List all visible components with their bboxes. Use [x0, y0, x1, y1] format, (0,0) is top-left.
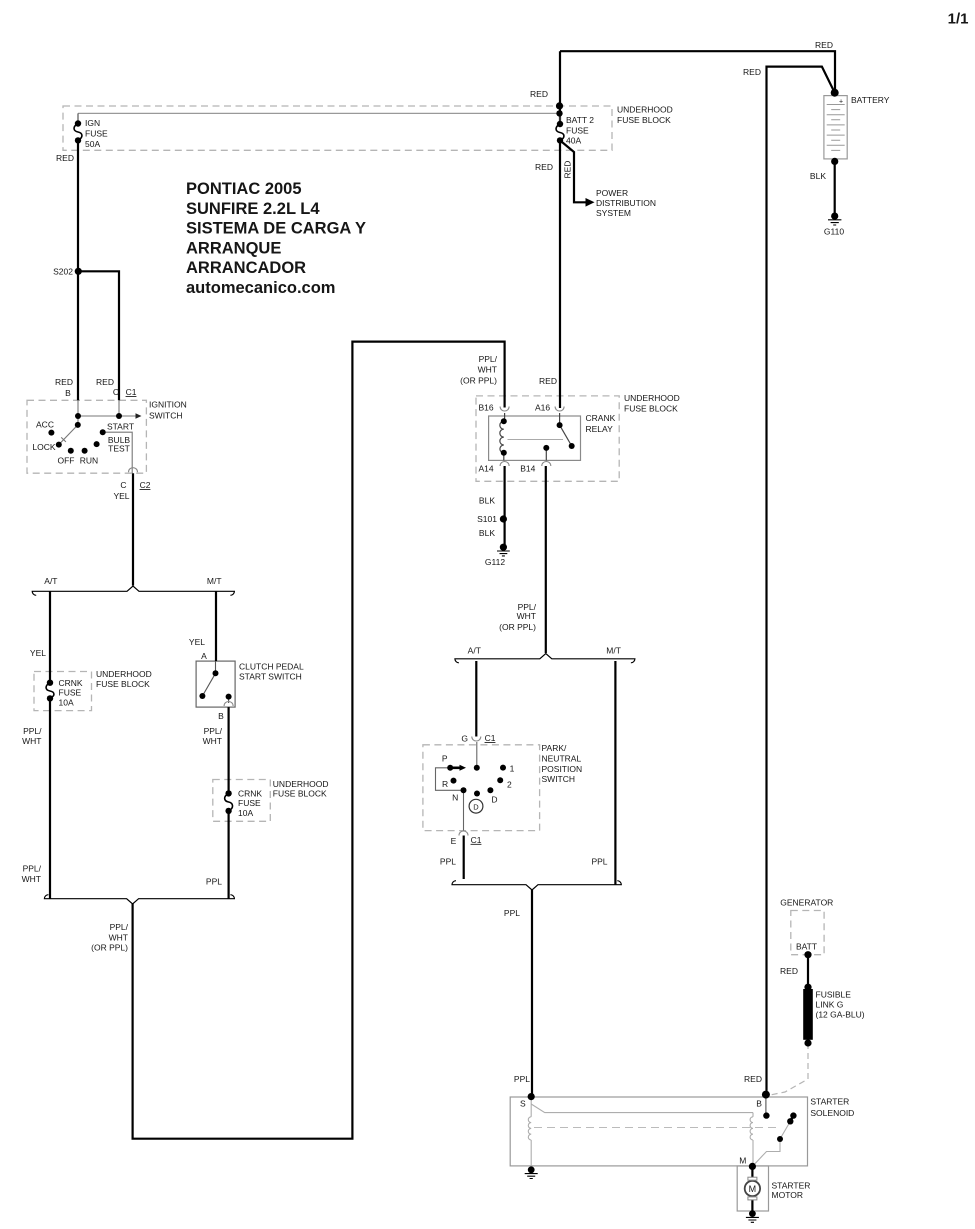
svg-text:POSITION: POSITION — [542, 764, 583, 774]
svg-text:OFF: OFF — [58, 456, 75, 466]
svg-text:MOTOR: MOTOR — [772, 1190, 803, 1200]
svg-text:A16: A16 — [535, 403, 550, 413]
svg-text:RED: RED — [96, 377, 114, 387]
svg-text:STARTER: STARTER — [810, 1097, 849, 1107]
svg-text:M: M — [739, 1156, 746, 1166]
svg-text:G112: G112 — [485, 557, 505, 567]
svg-text:40A: 40A — [566, 136, 581, 146]
svg-text:WHT: WHT — [109, 933, 128, 943]
svg-text:A14: A14 — [478, 464, 493, 474]
svg-text:WHT: WHT — [22, 874, 41, 884]
svg-text:PPL/: PPL/ — [479, 354, 498, 364]
svg-text:WHT: WHT — [22, 736, 41, 746]
svg-text:1/1: 1/1 — [948, 11, 969, 28]
svg-text:FUSE: FUSE — [566, 126, 589, 136]
svg-text:S: S — [520, 1099, 526, 1109]
svg-text:RED: RED — [55, 377, 73, 387]
svg-text:PPL/: PPL/ — [204, 726, 223, 736]
svg-text:C1: C1 — [485, 733, 496, 743]
svg-text:ACC: ACC — [36, 420, 54, 430]
svg-text:M/T: M/T — [606, 646, 621, 656]
svg-text:2: 2 — [507, 780, 512, 790]
svg-text:BATT: BATT — [796, 942, 817, 952]
svg-text:YEL: YEL — [189, 637, 205, 647]
svg-text:E: E — [451, 836, 457, 846]
svg-text:B: B — [218, 711, 224, 721]
svg-text:D: D — [491, 794, 497, 804]
svg-text:FUSE: FUSE — [238, 798, 261, 808]
svg-text:S202: S202 — [53, 267, 73, 277]
svg-text:IGNITION: IGNITION — [149, 400, 187, 410]
svg-text:RED: RED — [563, 161, 573, 179]
svg-text:POWER: POWER — [596, 188, 628, 198]
svg-text:C1: C1 — [126, 387, 137, 397]
svg-text:RED: RED — [744, 1074, 762, 1084]
svg-text:BATTERY: BATTERY — [851, 95, 890, 105]
svg-text:R: R — [442, 779, 448, 789]
svg-text:FUSE BLOCK: FUSE BLOCK — [624, 404, 678, 414]
svg-text:WHT: WHT — [478, 365, 497, 375]
svg-text:PPL: PPL — [514, 1074, 530, 1084]
svg-text:FUSE: FUSE — [85, 129, 108, 139]
svg-text:RED: RED — [815, 40, 833, 50]
svg-text:RED: RED — [743, 67, 761, 77]
svg-text:BLK: BLK — [810, 171, 826, 181]
svg-text:B: B — [65, 388, 71, 398]
svg-text:GENERATOR: GENERATOR — [780, 898, 833, 908]
svg-text:SISTEMA DE CARGA Y: SISTEMA DE CARGA Y — [186, 220, 366, 238]
svg-text:CLUTCH PEDAL: CLUTCH PEDAL — [239, 662, 304, 672]
svg-text:SYSTEM: SYSTEM — [596, 208, 631, 218]
svg-text:IGN: IGN — [85, 118, 100, 128]
svg-text:B16: B16 — [478, 403, 493, 413]
svg-text:P: P — [442, 754, 448, 764]
svg-text:ARRANQUE: ARRANQUE — [186, 239, 281, 257]
svg-text:SUNFIRE 2.2L L4: SUNFIRE 2.2L L4 — [186, 200, 320, 218]
svg-text:PPL: PPL — [504, 908, 520, 918]
svg-text:YEL: YEL — [30, 648, 46, 658]
svg-text:C: C — [120, 480, 126, 490]
svg-text:(OR PPL): (OR PPL) — [91, 943, 128, 953]
svg-text:PPL: PPL — [440, 857, 456, 867]
svg-text:FUSIBLE: FUSIBLE — [816, 990, 852, 1000]
svg-text:UNDERHOOD: UNDERHOOD — [96, 669, 152, 679]
svg-text:CRNK: CRNK — [59, 678, 83, 688]
svg-text:N: N — [452, 793, 458, 803]
svg-text:SWITCH: SWITCH — [149, 411, 183, 421]
svg-text:PPL/: PPL/ — [23, 864, 42, 874]
svg-text:C: C — [113, 387, 119, 397]
svg-text:M: M — [749, 1184, 757, 1194]
svg-text:FUSE BLOCK: FUSE BLOCK — [96, 679, 150, 689]
svg-text:WHT: WHT — [203, 736, 222, 746]
svg-text:START: START — [107, 422, 134, 432]
svg-text:G: G — [461, 734, 468, 744]
svg-text:LINK G: LINK G — [816, 1000, 844, 1010]
svg-text:SWITCH: SWITCH — [542, 774, 576, 784]
svg-text:PPL/: PPL/ — [23, 726, 42, 736]
svg-text:+: + — [839, 99, 843, 106]
svg-text:RUN: RUN — [80, 456, 98, 466]
svg-text:RED: RED — [56, 153, 74, 163]
svg-text:PPL: PPL — [206, 877, 222, 887]
svg-text:NEUTRAL: NEUTRAL — [542, 754, 582, 764]
svg-text:RED: RED — [780, 966, 798, 976]
svg-text:10A: 10A — [238, 808, 253, 818]
svg-text:1: 1 — [510, 763, 515, 773]
svg-text:G110: G110 — [824, 227, 844, 237]
svg-text:BLK: BLK — [479, 496, 495, 506]
svg-text:SOLENOID: SOLENOID — [810, 1108, 854, 1118]
svg-text:RED: RED — [530, 89, 548, 99]
svg-text:STARTER: STARTER — [772, 1181, 811, 1191]
svg-text:UNDERHOOD: UNDERHOOD — [624, 393, 680, 403]
svg-text:RED: RED — [539, 376, 557, 386]
svg-text:UNDERHOOD: UNDERHOOD — [273, 779, 329, 789]
svg-text:PPL: PPL — [591, 857, 607, 867]
svg-text:D: D — [473, 802, 479, 811]
svg-text:automecanico.com: automecanico.com — [186, 279, 335, 297]
svg-text:FUSE BLOCK: FUSE BLOCK — [273, 789, 327, 799]
svg-text:ARRANCADOR: ARRANCADOR — [186, 259, 306, 277]
svg-text:BLK: BLK — [479, 528, 495, 538]
svg-text:PARK/: PARK/ — [542, 743, 568, 753]
svg-text:CRNK: CRNK — [238, 789, 262, 799]
svg-text:FUSE: FUSE — [59, 688, 82, 698]
svg-text:LOCK: LOCK — [32, 442, 55, 452]
svg-text:B: B — [756, 1099, 762, 1109]
svg-text:PPL/: PPL/ — [110, 922, 129, 932]
svg-text:C2: C2 — [140, 480, 151, 490]
svg-text:PONTIAC 2005: PONTIAC 2005 — [186, 180, 302, 198]
svg-text:RED: RED — [535, 162, 553, 172]
svg-text:(OR PPL): (OR PPL) — [460, 376, 497, 386]
svg-text:(OR PPL): (OR PPL) — [499, 622, 536, 632]
svg-text:UNDERHOOD: UNDERHOOD — [617, 105, 673, 115]
svg-text:A: A — [201, 651, 207, 661]
svg-text:YEL: YEL — [113, 491, 129, 501]
svg-text:S101: S101 — [477, 514, 497, 524]
svg-text:B14: B14 — [520, 464, 535, 474]
svg-text:A/T: A/T — [44, 576, 57, 586]
svg-text:50A: 50A — [85, 139, 100, 149]
svg-text:RELAY: RELAY — [586, 424, 614, 434]
svg-text:(12 GA-BLU): (12 GA-BLU) — [816, 1010, 865, 1020]
svg-text:C1: C1 — [471, 835, 482, 845]
svg-text:FUSE BLOCK: FUSE BLOCK — [617, 115, 671, 125]
svg-text:DISTRIBUTION: DISTRIBUTION — [596, 198, 656, 208]
svg-text:CRANK: CRANK — [586, 413, 616, 423]
svg-text:BATT 2: BATT 2 — [566, 115, 594, 125]
svg-text:A/T: A/T — [468, 646, 481, 656]
svg-text:10A: 10A — [59, 698, 74, 708]
svg-text:START SWITCH: START SWITCH — [239, 672, 302, 682]
svg-text:TEST: TEST — [108, 444, 130, 454]
svg-text:WHT: WHT — [517, 611, 536, 621]
svg-text:M/T: M/T — [207, 576, 222, 586]
